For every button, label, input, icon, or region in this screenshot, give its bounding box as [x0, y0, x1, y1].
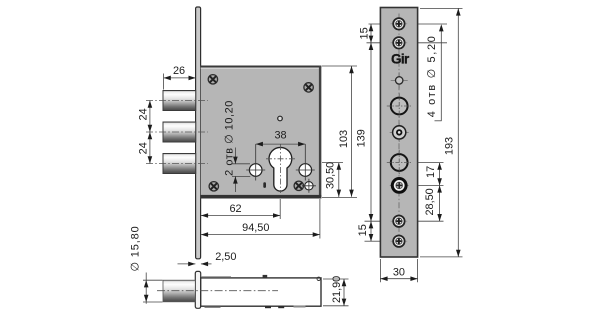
svg-text:94,50: 94,50	[242, 222, 269, 234]
svg-text:∅ 15,80: ∅ 15,80	[130, 225, 142, 271]
dimension 2,50	[178, 251, 237, 266]
svg-text:21,90: 21,90	[331, 276, 343, 303]
dimension d15,80	[130, 225, 163, 303]
plate big hole 1	[387, 93, 412, 118]
dimension 139	[355, 24, 373, 241]
dimension 28,50	[424, 185, 442, 221]
svg-text:15: 15	[358, 27, 370, 39]
small slot	[263, 182, 266, 188]
svg-text:4 отв ∅ 5,20: 4 отв ∅ 5,20	[426, 34, 438, 117]
dimension 24 (bolt 1-2)	[138, 101, 153, 164]
dimension 17	[418, 163, 444, 222]
dimension 30,50	[322, 162, 357, 198]
plate screw hole 1	[391, 18, 408, 29]
screw bottom-left	[209, 182, 218, 191]
svg-text:17: 17	[425, 166, 437, 178]
label 2 otv d10,20	[224, 100, 251, 192]
fixing hole left (cross circle)	[246, 144, 265, 180]
svg-text:28,50: 28,50	[424, 188, 436, 215]
svg-text:62: 62	[229, 203, 241, 215]
dimension 94,50	[201, 199, 320, 239]
svg-text:24: 24	[138, 108, 150, 120]
lock body (front view)	[201, 66, 322, 199]
dimension 103	[322, 66, 357, 197]
screw bottom-right	[294, 181, 303, 190]
dimension 15 top (plate screws)	[358, 24, 447, 43]
plate big hole 2	[387, 150, 412, 175]
svg-text:38: 38	[274, 130, 286, 142]
svg-text:2 отв ∅ 10,20: 2 отв ∅ 10,20	[224, 100, 236, 176]
small cross hole bottom-right	[302, 179, 316, 193]
svg-text:193: 193	[443, 137, 455, 155]
dimension 15 bottom (plate screws)	[357, 221, 444, 241]
bolt 3 (front view)	[163, 154, 196, 174]
faceplate edge view (front)	[196, 7, 201, 259]
svg-text:24: 24	[138, 142, 150, 154]
side view faceplate	[195, 271, 200, 308]
dimension 24 (bolt 2-3)	[138, 142, 153, 163]
svg-text:15: 15	[357, 224, 369, 236]
side view lock body	[201, 275, 321, 308]
plate screw hole 2	[391, 37, 408, 48]
plate hole with pin	[390, 123, 409, 142]
screw top-left	[208, 75, 217, 84]
side view bolt	[163, 280, 195, 302]
plate screw hole 3	[391, 216, 408, 227]
dimension 62	[201, 199, 280, 219]
fixing hole right (cross circle)	[296, 144, 315, 180]
dimension 193	[420, 8, 463, 257]
bolt 3 center line	[146, 163, 208, 165]
svg-text:26: 26	[173, 65, 185, 77]
plate ring hole	[390, 179, 409, 193]
svg-text:103: 103	[338, 130, 350, 148]
svg-text:139: 139	[355, 129, 367, 147]
right faceplate front view	[380, 8, 417, 258]
plate screw hole 4	[391, 236, 408, 247]
bolt 1 (front view)	[163, 91, 196, 111]
euro cylinder keyhole	[266, 144, 296, 193]
side view center line	[157, 290, 278, 292]
svg-text:30: 30	[393, 267, 405, 279]
bolt 2 center line	[146, 131, 208, 133]
bolt 1 center line	[146, 100, 208, 102]
label 4 otv d5,20	[426, 24, 443, 121]
plate small cross hole	[391, 72, 408, 88]
small pilot hole	[278, 116, 283, 121]
screw top-right	[304, 83, 313, 92]
dimension 30	[380, 259, 417, 282]
bolt 2 (front view)	[163, 122, 196, 142]
svg-text:Gir: Gir	[391, 51, 410, 66]
dimension 26	[164, 65, 196, 90]
svg-text:30,50: 30,50	[325, 162, 337, 189]
svg-text:2,50: 2,50	[215, 251, 236, 263]
dimension 21,90	[323, 276, 349, 306]
dimension 38	[256, 130, 306, 147]
